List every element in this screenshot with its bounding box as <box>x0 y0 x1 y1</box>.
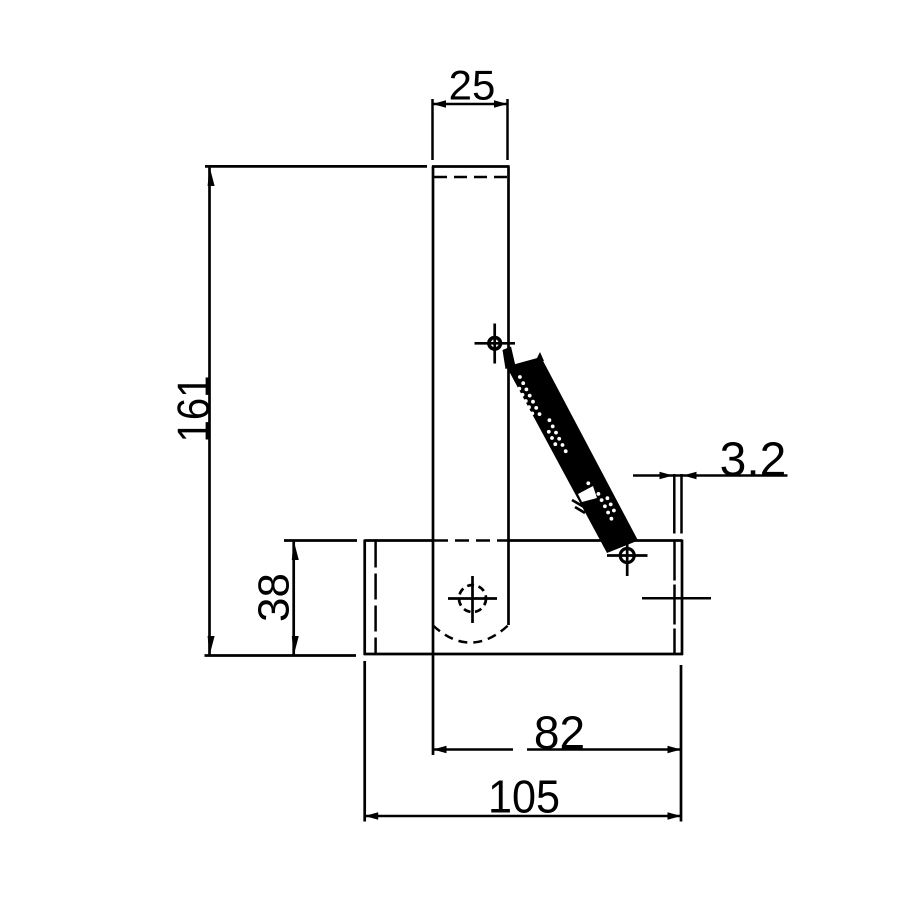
base plate right outer edge <box>681 540 684 656</box>
pin hole crosshair bottom <box>607 536 648 576</box>
base plate bottom edge <box>364 653 683 656</box>
dim 3.2: dimension line <box>633 474 788 477</box>
dim 105: extension line left <box>363 661 366 822</box>
pin hole crosshair top <box>475 324 516 364</box>
dim 105: arrow left <box>365 812 379 820</box>
dim 82: arrow left <box>433 746 447 754</box>
dim 105: arrow right <box>668 812 682 820</box>
svg-text:105: 105 <box>488 771 560 823</box>
dim 25: dimension line <box>433 103 508 106</box>
svg-text:38: 38 <box>250 573 299 622</box>
dim 161: extension line top <box>205 165 427 168</box>
spring hook tick 2 <box>575 507 585 513</box>
vertical arm left edge <box>432 167 435 627</box>
arm sheet-thickness hidden line <box>434 176 509 179</box>
base plate top edge hidden middle <box>434 539 509 542</box>
spring coil white speckles <box>517 375 615 520</box>
spring top spike <box>536 352 544 361</box>
dim 161: arrow top <box>208 166 215 186</box>
dim 25: arrow left <box>433 100 447 108</box>
dim 82: extension line right <box>680 665 683 822</box>
dim 82: arrow right <box>668 746 682 754</box>
spring top hook <box>503 347 516 370</box>
dim 161: arrow bottom <box>208 636 215 656</box>
dim 38: extension line top <box>284 539 357 542</box>
base plate left edge <box>363 540 366 656</box>
dim 38: arrow bottom <box>292 636 299 656</box>
dim 161: extension line bottom <box>205 654 357 657</box>
svg-text:82: 82 <box>534 707 585 759</box>
arm bottom hidden arc <box>433 625 509 643</box>
dim 161: dimension line <box>208 166 211 655</box>
dim 82: extension line left <box>432 626 435 755</box>
dim 3.2: arrow left <box>660 472 674 480</box>
dim 82: dimension line <box>433 748 513 751</box>
vertical arm top edge <box>432 165 510 168</box>
dim 25: extension line right <box>506 99 509 160</box>
svg-text:3.2: 3.2 <box>720 434 787 487</box>
base sheet-thickness inner line right <box>673 541 676 655</box>
vertical arm right edge <box>507 167 510 626</box>
dim 3.2: extension line right <box>680 474 683 534</box>
spring band <box>503 347 639 554</box>
dim 38: arrow top <box>292 541 299 561</box>
dim 38: dimension line <box>292 541 295 656</box>
dim 105: dimension line <box>365 815 681 818</box>
dim 3.2: arrow right <box>683 472 697 480</box>
base hole crosshair <box>448 576 497 623</box>
centre line right <box>642 597 711 600</box>
base plate top edge left <box>365 539 433 542</box>
dim 25: arrow right <box>494 100 508 108</box>
base sheet-thickness hidden line left <box>374 542 377 654</box>
dim 25: extension line left <box>431 99 434 160</box>
base plate top edge right <box>509 539 683 542</box>
spring hook tick 1 <box>572 500 584 507</box>
dim 3.2: extension line left <box>673 474 676 534</box>
spring break notch <box>578 486 597 502</box>
svg-text:25: 25 <box>449 62 496 109</box>
svg-text:161: 161 <box>168 376 219 443</box>
